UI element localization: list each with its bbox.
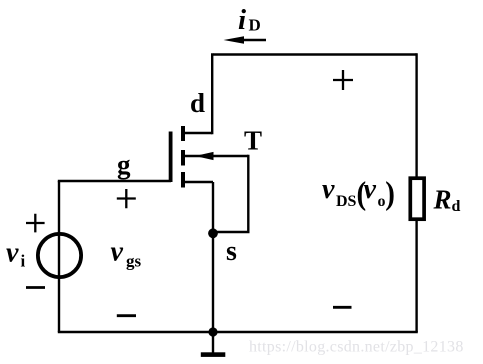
minus sign left (vi) xyxy=(26,286,45,289)
svg-text:s: s xyxy=(226,236,237,267)
wire left vertical xyxy=(58,181,60,332)
transistor T source channel bar xyxy=(181,172,185,188)
wire source lead xyxy=(183,181,213,183)
plus sign middle (vgs) xyxy=(117,189,136,208)
svg-text:v: v xyxy=(322,174,335,205)
transistor T gate bar xyxy=(169,132,173,183)
svg-text:R: R xyxy=(433,185,452,215)
svg-text:o: o xyxy=(378,193,386,210)
svg-text:T: T xyxy=(244,126,262,156)
plus sign right (vDS) xyxy=(333,70,353,90)
wire bottom xyxy=(58,331,418,333)
resistor Rd xyxy=(410,178,424,219)
svg-text:v: v xyxy=(6,238,19,269)
svg-text:gs: gs xyxy=(126,252,142,271)
transistor T body arrow xyxy=(195,152,214,160)
svg-text:): ) xyxy=(385,176,395,212)
ground bar xyxy=(201,352,226,357)
plus sign left (vi) xyxy=(26,214,45,233)
ground stub wire xyxy=(212,332,214,353)
node s junction dot xyxy=(208,228,218,238)
minus sign right (vDS) xyxy=(333,306,352,309)
svg-text:DS: DS xyxy=(336,193,357,210)
svg-text:i: i xyxy=(238,4,246,36)
svg-text:v: v xyxy=(364,174,377,205)
wire right vertical xyxy=(415,53,417,332)
voltage source vi circle xyxy=(38,234,81,277)
minus sign middle (vgs) xyxy=(117,314,136,317)
wire body bottom xyxy=(213,231,250,233)
wire top (drain to Rd branch) xyxy=(213,53,417,55)
current iD arrow xyxy=(240,39,266,41)
svg-text:g: g xyxy=(117,150,131,180)
wire drain vertical xyxy=(211,53,213,134)
svg-text:https://blog.csdn.net/zbp_1213: https://blog.csdn.net/zbp_12138 xyxy=(249,339,464,356)
node ground junction dot xyxy=(208,327,217,336)
wire gate lead xyxy=(58,180,171,182)
wire drain lead xyxy=(183,132,212,134)
svg-text:d: d xyxy=(190,88,205,118)
svg-text:v: v xyxy=(111,237,124,268)
wire body lead xyxy=(183,155,248,157)
transistor T body channel bar xyxy=(181,150,185,166)
svg-text:d: d xyxy=(452,198,461,215)
wire body right vertical xyxy=(247,155,249,232)
wire source vertical xyxy=(212,182,214,332)
svg-text:i: i xyxy=(21,252,26,271)
svg-text:D: D xyxy=(249,16,261,35)
transistor T drain channel bar xyxy=(181,126,185,141)
